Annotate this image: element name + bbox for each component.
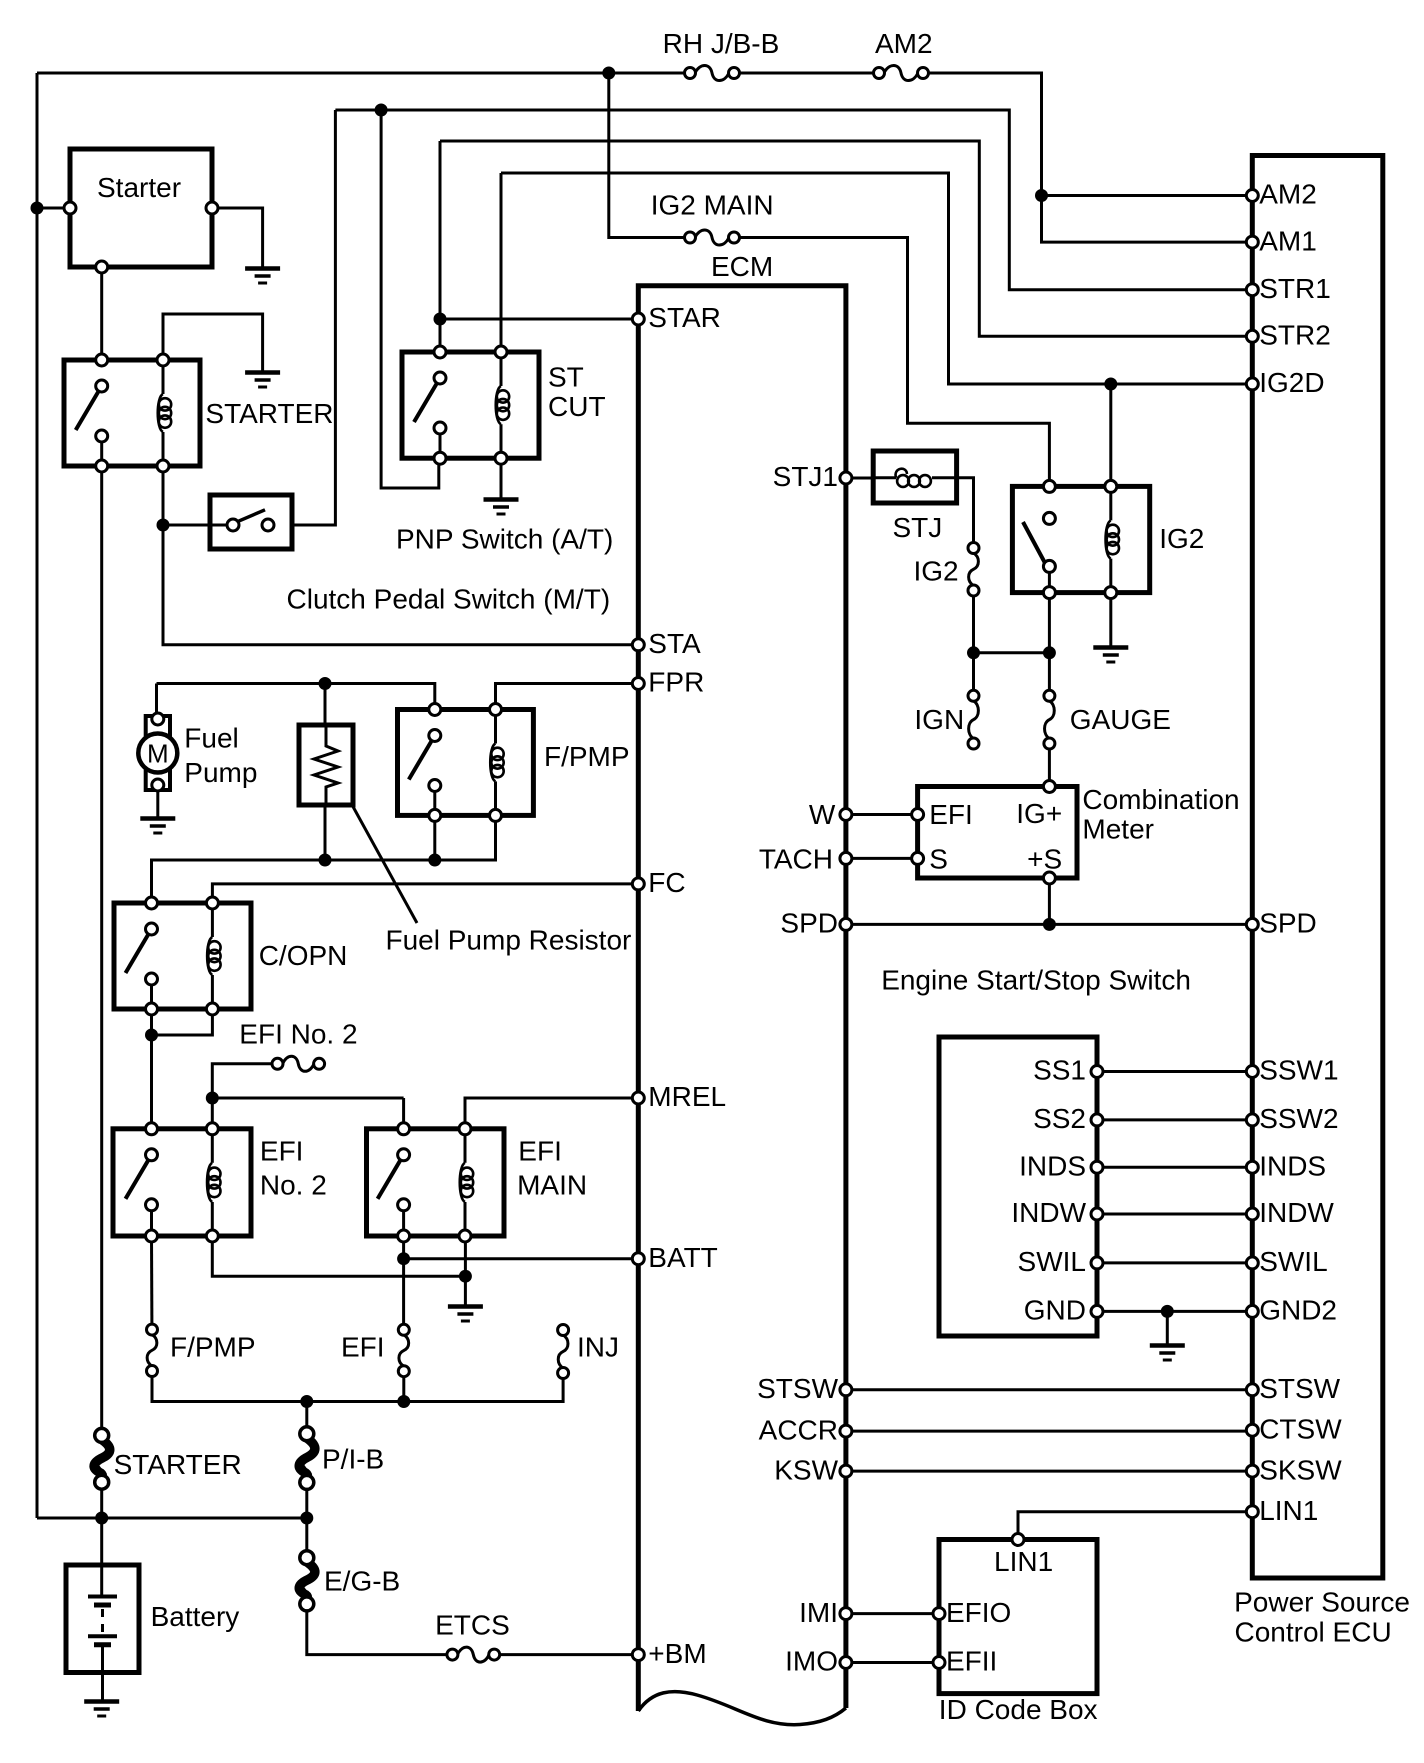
ground (ST CUT / PNP) xyxy=(484,497,519,502)
svg-text:STR2: STR2 xyxy=(1259,320,1331,351)
junction dot F/PMP switch output xyxy=(429,854,441,866)
node SSW1 (power source control ECU pin) xyxy=(1246,1066,1258,1078)
fuse AM2 xyxy=(884,66,918,81)
svg-text:M: M xyxy=(147,739,169,769)
svg-text:AM1: AM1 xyxy=(1259,225,1317,256)
wire: E/G-B to ETCS fuse xyxy=(307,1611,447,1655)
node INDW (power source control ECU pin) xyxy=(1246,1208,1258,1220)
junction dot STAR wire xyxy=(434,313,446,325)
junction dot IGN branch xyxy=(968,647,980,659)
fuse IGN xyxy=(969,701,979,739)
wire: LIN1 line xyxy=(1018,1512,1252,1533)
wire: STJ1 to STJ box xyxy=(846,477,873,480)
wire: GAUGE to combination meter IG+ xyxy=(1048,749,1051,787)
junction dot GAUGE branch xyxy=(1043,647,1055,659)
svg-text:STJ: STJ xyxy=(893,512,943,543)
svg-text:INDW: INDW xyxy=(1259,1197,1334,1228)
wire: battery bottom lead to ground xyxy=(101,1645,104,1701)
fusible link P/I-B (thick) xyxy=(299,1438,315,1478)
node IG2D (power source control ECU pin) xyxy=(1246,378,1258,390)
svg-text:C/OPN: C/OPN xyxy=(259,940,348,971)
svg-text:INDS: INDS xyxy=(1259,1150,1326,1181)
wire: bottom bus battery to E/G-B branch xyxy=(100,1489,103,1518)
wire: STARTER relay switch to fusible link and battery xyxy=(100,466,103,1429)
svg-text:E/G-B: E/G-B xyxy=(324,1565,400,1596)
relay F/PMP xyxy=(398,710,534,816)
wire: starter feed stub xyxy=(37,207,70,210)
svg-text:+BM: +BM xyxy=(648,1638,706,1669)
svg-text:SS2: SS2 xyxy=(1033,1103,1086,1134)
wire: P/I-B bottom stub xyxy=(305,1489,308,1518)
wire: bus4 IG2D net xyxy=(501,173,1252,384)
fuse IG2 xyxy=(969,553,979,586)
wire: fuel pump resistor leads xyxy=(324,684,327,726)
svg-text:IG2: IG2 xyxy=(913,556,958,587)
fuse EFI No. 2 xyxy=(283,1056,315,1071)
svg-text:FC: FC xyxy=(648,867,685,898)
svg-text:EFI No. 2: EFI No. 2 xyxy=(239,1018,357,1049)
svg-text:Pump: Pump xyxy=(184,757,257,788)
node W (ECM pin) xyxy=(840,809,852,821)
svg-text:EFI: EFI xyxy=(929,799,973,830)
junction dot E/G-B branch xyxy=(301,1512,313,1524)
svg-text:Control ECU: Control ECU xyxy=(1235,1617,1392,1648)
svg-text:STJ1: STJ1 xyxy=(773,461,838,492)
svg-text:ST: ST xyxy=(548,361,584,392)
wire: fuel line relay outputs to C/OPN xyxy=(152,815,496,903)
svg-text:CTSW: CTSW xyxy=(1259,1413,1342,1444)
svg-text:RH J/B-B: RH J/B-B xyxy=(663,28,780,59)
svg-text:No. 2: No. 2 xyxy=(260,1169,327,1200)
junction dot resistor bottom xyxy=(319,854,331,866)
wire: IG2 relay coil to ground xyxy=(1109,593,1112,647)
junction dot bus2 / ST CUT contact return xyxy=(375,104,387,116)
svg-text:Power Source: Power Source xyxy=(1234,1586,1410,1617)
junction dot GND ground xyxy=(1161,1305,1173,1317)
svg-text:Starter: Starter xyxy=(97,172,181,203)
wire: ETCS to +BM xyxy=(500,1653,639,1656)
svg-text:W: W xyxy=(809,799,836,830)
junction dot battery bus / starter feed xyxy=(31,202,43,214)
wire: battery top lead xyxy=(100,1518,103,1596)
wire: bus2 left drop to clutch pedal switch xyxy=(292,110,335,525)
node STSW (ECM pin) xyxy=(840,1384,852,1396)
svg-text:P/I-B: P/I-B xyxy=(322,1443,384,1474)
junction dot EFI link bottom xyxy=(398,1396,410,1408)
svg-text:MREL: MREL xyxy=(648,1081,726,1112)
relay EFI No. 2 xyxy=(113,1129,251,1236)
junction dot fuel pump resistor top xyxy=(319,678,331,690)
node AM1 (power source control ECU pin) xyxy=(1246,236,1258,248)
node STR1 (power source control ECU pin) xyxy=(1246,284,1258,296)
fuse GAUGE xyxy=(1045,701,1055,739)
node SPD (ECM pin) xyxy=(840,918,852,930)
svg-text:EFI: EFI xyxy=(518,1136,562,1167)
wire: STARTER relay coil to ground xyxy=(163,314,263,372)
wire: STJ to IG2 fuse xyxy=(957,478,974,542)
component ID Code Box xyxy=(939,1540,1097,1694)
svg-text:SS1: SS1 xyxy=(1033,1055,1086,1086)
wire: fuel pump drop xyxy=(155,684,158,714)
svg-text:GAUGE: GAUGE xyxy=(1070,704,1171,735)
wire: IGN stub xyxy=(972,653,975,690)
ground (fuel pump) xyxy=(140,816,175,821)
wire: ST CUT contact return to bus2 xyxy=(381,110,439,488)
wire: FC line xyxy=(212,884,638,903)
svg-text:LIN1: LIN1 xyxy=(994,1546,1053,1577)
ground (EFI relay coils) xyxy=(448,1304,483,1309)
wire: main feed bus to links xyxy=(152,1377,563,1401)
svg-text:IMO: IMO xyxy=(785,1646,838,1677)
wire: starter to ground xyxy=(212,208,263,268)
node FPR (ECM pin) xyxy=(632,678,644,690)
wire: EFI MAIN switch to EFI fusible link xyxy=(402,1236,405,1324)
fusible link E/G-B (thick) xyxy=(299,1562,315,1599)
svg-text:SWIL: SWIL xyxy=(1259,1246,1327,1277)
junction dot on top bus at IG2 MAIN drop xyxy=(603,67,615,79)
wire: IMO-EFII xyxy=(846,1661,939,1664)
svg-text:ETCS: ETCS xyxy=(435,1610,510,1641)
node STA (ECM pin) xyxy=(632,639,644,651)
wire: SS1-SSW1 xyxy=(1097,1070,1252,1073)
node STAR (ECM pin) xyxy=(632,313,644,325)
svg-text:SSW2: SSW2 xyxy=(1259,1103,1338,1134)
junction dot BATT xyxy=(398,1253,410,1265)
ground (starter) xyxy=(245,266,280,271)
node STSW (power source control ECU pin) xyxy=(1246,1384,1258,1396)
svg-text:PNP Switch (A/T): PNP Switch (A/T) xyxy=(396,524,613,555)
svg-text:CUT: CUT xyxy=(548,391,606,422)
wire: drop to IG2 MAIN fuse xyxy=(609,73,690,238)
component Engine Start/Stop Switch xyxy=(939,1037,1097,1336)
wire: P/I-B link top stub xyxy=(305,1402,308,1428)
node GND2 (power source control ECU pin) xyxy=(1246,1305,1258,1317)
node STJ1 (ECM pin) xyxy=(840,472,852,484)
svg-text:GND2: GND2 xyxy=(1259,1295,1337,1326)
ground (IG2 relay coil) xyxy=(1093,645,1128,650)
svg-text:STARTER: STARTER xyxy=(205,398,333,429)
component Fuel Pump Resistor xyxy=(299,725,353,805)
svg-text:Fuel: Fuel xyxy=(184,722,238,753)
relay EFI MAIN xyxy=(367,1129,505,1236)
svg-text:IG2 MAIN: IG2 MAIN xyxy=(651,189,774,220)
node IMO (ECM pin) xyxy=(840,1657,852,1669)
ground (start/stop switch GND) xyxy=(1150,1343,1185,1348)
svg-text:SWIL: SWIL xyxy=(1018,1246,1086,1277)
node EFII xyxy=(933,1657,945,1669)
wire: fuel pump to ground xyxy=(156,790,159,818)
node AM2 (power source control ECU pin) xyxy=(1246,190,1258,202)
node TACH (ECM pin) xyxy=(840,852,852,864)
wire: E/G-B link top stub xyxy=(305,1518,308,1551)
fusible link F/PMP xyxy=(147,1335,157,1366)
wire: GND-GND2 xyxy=(1097,1310,1252,1313)
component Fuel Pump motor xyxy=(146,716,170,790)
node SWIL (power source control ECU pin) xyxy=(1246,1257,1258,1269)
fuse ETCS xyxy=(457,1647,489,1662)
fusible link EFI xyxy=(399,1335,409,1366)
svg-text:AM2: AM2 xyxy=(1259,179,1317,210)
svg-text:Battery: Battery xyxy=(151,1601,240,1632)
pointer line fuel pump resistor xyxy=(351,803,417,923)
wire: ACCR-CTSW line xyxy=(846,1430,1252,1433)
wire: SPD line xyxy=(846,923,1252,926)
node IMI (ECM pin) xyxy=(840,1608,852,1620)
svg-text:ID Code Box: ID Code Box xyxy=(939,1694,1098,1725)
junction dot AM2 branch xyxy=(1036,190,1048,202)
wire: feed to clutch pedal switch xyxy=(163,524,227,527)
node SS1 xyxy=(1091,1066,1103,1078)
svg-text:IG2D: IG2D xyxy=(1259,367,1324,398)
node CTSW (power source control ECU pin) xyxy=(1246,1424,1258,1436)
svg-text:SKSW: SKSW xyxy=(1259,1454,1342,1485)
fuse RH J/B-B xyxy=(695,66,729,81)
fusible link STARTER (thick) xyxy=(94,1440,110,1478)
wire: IG2 fuse to IGN junction xyxy=(972,596,975,653)
relay IG2 xyxy=(1012,486,1149,592)
junction dot P/I-B top xyxy=(301,1396,313,1408)
wire: ST CUT coil to ground xyxy=(500,458,503,499)
relay C/OPN xyxy=(114,903,251,1009)
node SSW2 (power source control ECU pin) xyxy=(1246,1114,1258,1126)
wire: bus3 left drop to ST CUT relay switch xyxy=(439,141,442,352)
svg-text:STA: STA xyxy=(648,628,701,659)
wire: EFI No.2 coil to ground junction xyxy=(212,1236,465,1276)
svg-text:Engine Start/Stop Switch: Engine Start/Stop Switch xyxy=(881,964,1191,995)
node BATT (ECM pin) xyxy=(632,1253,644,1265)
wire: AM2 fuse to corner down to AM1 pin xyxy=(923,73,1252,242)
relay ST CUT xyxy=(402,352,539,458)
component Starter xyxy=(70,149,212,267)
wire: MREL drop to EFI MAIN switch xyxy=(402,1098,405,1129)
junction dot C/OPN output xyxy=(146,1029,158,1041)
wire: IG2D junction to IG2 relay coil xyxy=(1109,384,1112,486)
node KSW (ECM pin) xyxy=(840,1465,852,1477)
wire: KSW-SKSW line xyxy=(846,1470,1252,1473)
wire: TACH line xyxy=(846,857,911,860)
ground (STARTER relay coil) xyxy=(245,370,280,375)
node INDS (switch) xyxy=(1091,1161,1103,1173)
wire: FPR line right segment from F/PMP relay coil xyxy=(496,684,639,710)
component Combination Meter xyxy=(918,787,1077,879)
node FC (ECM pin) xyxy=(632,878,644,890)
svg-text:EFI: EFI xyxy=(260,1136,304,1167)
svg-text:MAIN: MAIN xyxy=(517,1169,587,1200)
svg-text:KSW: KSW xyxy=(774,1454,838,1485)
node EFIO xyxy=(933,1608,945,1620)
svg-text:IG2: IG2 xyxy=(1159,523,1204,554)
wire: starter to STARTER relay switch xyxy=(100,267,103,360)
wire: junction crossbar xyxy=(974,651,1050,654)
svg-text:INDS: INDS xyxy=(1019,1150,1086,1181)
wire: GAUGE stub xyxy=(1048,653,1051,690)
wire: RH J/B-B to AM2 fuse xyxy=(734,72,879,75)
svg-text:INDW: INDW xyxy=(1011,1197,1086,1228)
wire: INDW xyxy=(1097,1213,1252,1216)
junction dot MREL / EFI No.2 coil xyxy=(206,1092,218,1104)
wire: EFI No.2 switch to F/PMP fusible link xyxy=(150,1236,153,1323)
node STR2 (power source control ECU pin) xyxy=(1246,330,1258,342)
wire: STAR to ECM xyxy=(440,318,638,321)
svg-text:SSW1: SSW1 xyxy=(1259,1055,1338,1086)
wire: GND ground stub xyxy=(1166,1311,1169,1345)
svg-text:INJ: INJ xyxy=(577,1332,619,1363)
component Battery xyxy=(66,1565,139,1673)
svg-text:SPD: SPD xyxy=(780,908,838,939)
svg-text:IG+: IG+ xyxy=(1016,798,1062,829)
svg-text:F/PMP: F/PMP xyxy=(170,1332,256,1363)
svg-text:ECM: ECM xyxy=(711,251,773,282)
wire: F/PMP switch lower stub xyxy=(433,815,436,860)
node LIN1 (ID code box pin) xyxy=(1012,1534,1024,1546)
wire: EFI No.2 coil stub xyxy=(211,1098,214,1129)
svg-text:BATT: BATT xyxy=(648,1242,717,1273)
wire: bus4 left drop to ST CUT coil xyxy=(500,173,503,352)
wire: IMI-EFIO xyxy=(846,1612,939,1615)
node SWIL (switch) xyxy=(1091,1257,1103,1269)
svg-text:IMI: IMI xyxy=(799,1597,838,1628)
wire: EFI No.2 fuse lead xyxy=(212,1064,272,1098)
junction dot IG2D / IG2 relay coil xyxy=(1105,378,1117,390)
wire: FPR line left segment to F/PMP relay switch xyxy=(157,684,435,710)
svg-text:IGN: IGN xyxy=(914,704,964,735)
wire: top bus to RH J/B-B fuse xyxy=(37,72,690,75)
component Clutch Pedal Switch xyxy=(210,495,292,549)
svg-text:FPR: FPR xyxy=(648,667,704,698)
svg-text:Clutch Pedal Switch (M/T): Clutch Pedal Switch (M/T) xyxy=(287,584,611,615)
wire: +S to SPD xyxy=(1048,878,1051,924)
node +BM (ECM pin) xyxy=(632,1649,644,1661)
junction dot clutch switch feed xyxy=(157,519,169,531)
node INDS (power source control ECU pin) xyxy=(1246,1161,1258,1173)
node SS2 xyxy=(1091,1114,1103,1126)
relay STARTER xyxy=(64,360,200,466)
wire: EFI link bottom stub xyxy=(402,1378,405,1402)
wire: SWIL xyxy=(1097,1261,1252,1264)
svg-text:SPD: SPD xyxy=(1259,908,1317,939)
svg-text:GND: GND xyxy=(1024,1295,1086,1326)
wire: IG2 relay switch to GAUGE branch xyxy=(1048,593,1051,653)
wire: INDS xyxy=(1097,1166,1252,1169)
junction dot battery bus bottom xyxy=(96,1512,108,1524)
wire: bus3 STAR net to STR2 pin xyxy=(440,141,1252,336)
fuse IG2 MAIN xyxy=(695,230,729,245)
svg-text:STSW: STSW xyxy=(757,1373,838,1404)
svg-text:STSW: STSW xyxy=(1259,1373,1340,1404)
svg-text:F/PMP: F/PMP xyxy=(544,741,630,772)
node SKSW (power source control ECU pin) xyxy=(1246,1465,1258,1477)
wire: STSW line xyxy=(846,1388,1252,1391)
svg-text:Fuel Pump Resistor: Fuel Pump Resistor xyxy=(386,925,632,956)
component STJ relay coil box xyxy=(873,451,956,503)
wire: MREL line left segment xyxy=(212,1097,403,1100)
fusible link INJ xyxy=(558,1335,568,1368)
svg-text:STAR: STAR xyxy=(648,302,721,333)
wire: SS2-SSW2 xyxy=(1097,1118,1252,1121)
wire: EFI MAIN coil to ground xyxy=(464,1236,467,1306)
node SPD (power source control ECU pin) xyxy=(1246,918,1258,930)
svg-text:EFIO: EFIO xyxy=(946,1597,1011,1628)
component ECM box xyxy=(638,286,846,1711)
wire: W line xyxy=(846,813,911,816)
svg-text:Combination: Combination xyxy=(1082,784,1239,815)
svg-text:EFI: EFI xyxy=(341,1332,385,1363)
node MREL (ECM pin) xyxy=(632,1092,644,1104)
svg-text:TACH: TACH xyxy=(759,844,833,875)
component Power Source Control ECU xyxy=(1252,156,1383,1579)
svg-text:EFII: EFII xyxy=(946,1646,997,1677)
ground (battery) xyxy=(84,1699,119,1704)
node INDW (switch) xyxy=(1091,1208,1103,1220)
svg-text:Meter: Meter xyxy=(1082,814,1154,845)
node GND (switch) xyxy=(1091,1305,1103,1317)
svg-text:LIN1: LIN1 xyxy=(1259,1495,1318,1526)
svg-text:STARTER: STARTER xyxy=(114,1449,242,1480)
wire: BATT line xyxy=(404,1257,639,1260)
wire: IG2 MAIN fuse to IG2 relay switch xyxy=(734,238,1049,487)
node ACCR (ECM pin) xyxy=(840,1425,852,1437)
wire: C/OPN outputs junction xyxy=(152,1009,213,1035)
wire: STARTER relay coil to STA xyxy=(163,466,638,645)
wire: battery positive bus (left vertical) xyxy=(36,73,39,1518)
wire: bus2 STR1 net xyxy=(335,110,1252,290)
junction dot SPD / +S xyxy=(1043,918,1055,930)
svg-text:STR1: STR1 xyxy=(1259,273,1331,304)
svg-text:AM2: AM2 xyxy=(875,28,933,59)
junction dot relay coils ground xyxy=(459,1270,471,1282)
svg-text:S: S xyxy=(929,844,948,875)
node LIN1 (power source control ECU pin) xyxy=(1246,1506,1258,1518)
wire: MREL right segment from EFI MAIN coil xyxy=(465,1098,638,1129)
svg-text:+S: +S xyxy=(1027,844,1062,875)
wire: AM2 pin branch xyxy=(1042,194,1253,197)
svg-text:ACCR: ACCR xyxy=(759,1414,838,1445)
